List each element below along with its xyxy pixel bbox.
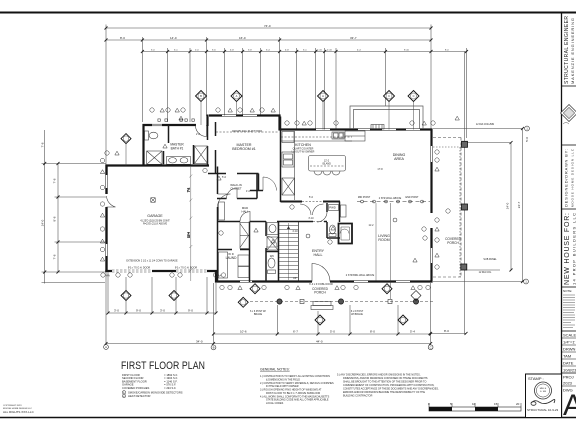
wall: stairs west — [278, 222, 280, 283]
left wall tag column — [100, 151, 225, 277]
kitchen hall opening dashed — [302, 201, 323, 203]
svg-text:10/8/23: 10/8/23 — [563, 368, 576, 373]
svg-text:HALL: HALL — [314, 253, 323, 257]
svg-text:17'-8: 17'-8 — [377, 168, 383, 171]
svg-text:UP: UP — [293, 276, 297, 280]
svg-text:14 PROP BUILDERS LLC: 14 PROP BUILDERS LLC — [572, 213, 576, 285]
svg-text:8'-0: 8'-0 — [444, 329, 449, 333]
svg-text:24'-0: 24'-0 — [506, 202, 510, 209]
bottom dim rows — [107, 271, 109, 313]
master bath door — [195, 125, 206, 137]
svg-text:3'-0: 3'-0 — [160, 309, 165, 313]
svg-text:9'-10: 9'-10 — [404, 50, 410, 52]
bath2 door — [266, 236, 277, 247]
east porch columns — [461, 141, 468, 270]
svg-text:21'-4: 21'-4 — [187, 232, 191, 238]
svg-text:PWD: PWD — [329, 206, 336, 210]
svg-text:DATE: DATE — [563, 361, 574, 366]
svg-text:MID POINT: MID POINT — [358, 196, 371, 199]
wall: bath south closets — [164, 145, 194, 164]
svg-text:STAMP :: STAMP : — [528, 376, 544, 381]
laundry machines — [238, 255, 249, 266]
svg-text:5'-0: 5'-0 — [222, 176, 227, 179]
svg-text:A: A — [563, 389, 576, 422]
wall: south exterior with door/windows — [215, 280, 433, 282]
svg-text:B: B — [213, 346, 215, 350]
island — [309, 156, 346, 172]
svg-text:CROWN RAIL PLAT/TYP(D): CROWN RAIL PLAT/TYP(D) — [232, 130, 262, 133]
svg-text:S. SM: S. SM — [540, 391, 546, 393]
left dim col — [44, 130, 46, 284]
wall: pwd west — [326, 203, 328, 238]
masonry pilaster on north wall — [371, 125, 384, 130]
svg-text:7'-8: 7'-8 — [53, 178, 57, 183]
svg-text:DESIGNED/DRAWN BY:: DESIGNED/DRAWN BY: — [564, 149, 569, 207]
svg-text:SUB PANEL: SUB PANEL — [483, 258, 497, 261]
keep cabinet — [341, 205, 347, 217]
fireplace — [339, 224, 353, 244]
svg-text:LAYOUT W/ OWNER: LAYOUT W/ OWNER — [292, 151, 315, 154]
entry hall arch — [313, 221, 324, 223]
stamp seal circle — [535, 382, 552, 399]
divider below logo — [562, 144, 576, 146]
svg-text:C: C — [413, 94, 415, 98]
area table — [122, 373, 178, 390]
wall: jog bath/bedroom — [206, 115, 208, 127]
svg-text:1'-10: 1'-10 — [317, 50, 323, 52]
dashed col lines at dining/living — [459, 147, 461, 277]
svg-text:MAKENZIE ENGINEERING: MAKENZIE ENGINEERING — [570, 18, 575, 84]
drawing title — [121, 360, 205, 398]
logo diamond — [561, 105, 576, 122]
linen closet — [195, 146, 208, 164]
svg-text:PORCH: PORCH — [314, 291, 326, 295]
window: bath north — [152, 124, 162, 126]
wall: bedroom west — [215, 122, 217, 174]
copyright note bottom-left — [3, 405, 35, 414]
wall: mud wing west jog — [215, 270, 217, 283]
wall: bedroom south / hall north — [208, 174, 259, 191]
svg-text:BEDROOM #1: BEDROOM #1 — [232, 147, 256, 151]
bath window tag boxes — [158, 119, 160, 121]
top dim row 2 — [106, 39, 431, 41]
grid bubbles — [104, 126, 530, 350]
title block left border — [561, 13, 563, 418]
wall: master bath west — [142, 124, 144, 167]
svg-text:BRACE: BRACE — [254, 313, 263, 316]
svg-text:= 294 S.F.: = 294 S.F. — [164, 386, 176, 390]
svg-text:KITCHEN: KITCHEN — [295, 143, 311, 147]
wall: kitchen/dining north with windows — [280, 128, 433, 130]
hall closets — [240, 223, 250, 249]
svg-text:34'-0: 34'-0 — [196, 340, 203, 344]
svg-text:24'-7: 24'-7 — [517, 201, 521, 208]
wall: mud hall south / bath north — [218, 221, 299, 223]
wall: bedroom south right + door — [250, 190, 263, 192]
wall: bedroom north with two windows — [209, 114, 281, 116]
svg-text:ALL RIGHTS XXX-LLC: ALL RIGHTS XXX-LLC — [3, 410, 35, 414]
master bath vanity — [167, 157, 191, 165]
svg-text:1/4"=1': 1/4"=1' — [563, 340, 576, 345]
svg-text:EXTENSION 2 1/2 x 11 1/4 CONN: EXTENSION 2 1/2 x 11 1/4 CONN TO GARAGE — [126, 260, 178, 263]
scale rows — [562, 330, 576, 332]
svg-text:5'-0: 5'-0 — [330, 330, 335, 334]
svg-text:C: C — [388, 94, 390, 98]
detector symbols — [151, 198, 397, 238]
svg-text:COPYRIGHT 2023: COPYRIGHT 2023 — [3, 405, 22, 407]
pwd sink — [329, 205, 339, 211]
living room center line — [390, 203, 392, 299]
fireplace firebox — [340, 227, 350, 240]
svg-text:9'0 x 7'0 O.H. DOOR: 9'0 x 7'0 O.H. DOOR — [128, 267, 150, 270]
svg-text:2 STR BRG WALL ABOVE: 2 STR BRG WALL ABOVE — [346, 274, 375, 277]
kitchen sink — [332, 132, 344, 139]
south porch columns — [277, 299, 419, 304]
master bath toilet — [145, 131, 149, 140]
dim ticks — [43, 27, 524, 346]
bedroom door — [263, 177, 277, 191]
bath2 shower — [267, 237, 278, 250]
svg-text:4'-6: 4'-6 — [246, 190, 251, 193]
svg-text:A: A — [322, 94, 324, 98]
divider below client — [562, 286, 576, 288]
svg-text:5'-0: 5'-0 — [309, 196, 314, 199]
wall: garage north — [106, 164, 210, 166]
dim labels — [114, 24, 529, 344]
laundry counter — [219, 252, 228, 278]
entry closet double doors — [300, 204, 324, 215]
right dim col — [433, 128, 523, 130]
svg-text:NOTE:: NOTE: — [563, 289, 572, 293]
butler area right of kitchen — [345, 131, 365, 141]
graphic scale bar — [428, 402, 521, 411]
wall: east exterior with windows — [430, 129, 432, 283]
svg-text:AA: AA — [106, 274, 110, 278]
wall: entry closet north — [299, 221, 328, 223]
svg-text:3'-0: 3'-0 — [114, 309, 119, 313]
svg-text:STRUCTURAL 10-9-23: STRUCTURAL 10-9-23 — [527, 408, 559, 412]
svg-text:12 DIA COL: 12 DIA COL — [479, 271, 492, 274]
title block divider below engineer section — [562, 85, 576, 87]
closet door — [227, 188, 238, 199]
svg-text:2023: 2023 — [563, 381, 573, 386]
svg-text:33'-7: 33'-7 — [350, 36, 357, 40]
svg-text:HEAT DETECTOR: HEAT DETECTOR — [128, 394, 150, 398]
stamp signature — [531, 399, 555, 403]
bath2 toilet — [268, 258, 275, 268]
detector legend — [122, 391, 125, 394]
svg-text:5'-0: 5'-0 — [525, 137, 529, 142]
divider below designer — [562, 208, 576, 210]
wall: bath north — [143, 124, 197, 126]
svg-text:9'0 x 7'0 O.H. DOOR: 9'0 x 7'0 O.H. DOOR — [175, 267, 197, 270]
svg-text:AA: AA — [218, 274, 222, 278]
svg-text:PORCH: PORCH — [447, 241, 459, 245]
wall: pwd south — [327, 237, 340, 239]
stamp box — [526, 374, 562, 418]
svg-text:MEL E: MEL E — [540, 388, 547, 390]
interior tag diamonds — [121, 134, 131, 144]
master bath shower — [147, 151, 162, 164]
pwd door — [317, 212, 327, 222]
svg-text:15: 15 — [494, 402, 498, 406]
south porch dashed edge — [240, 301, 433, 303]
svg-text:6'-0 x 6'-8 DBL DOOR: 6'-0 x 6'-8 DBL DOOR — [309, 283, 333, 286]
svg-text:9'-0: 9'-0 — [136, 309, 141, 313]
sheet top border — [0, 12, 576, 14]
pwd toilet — [330, 225, 336, 234]
stairs treads — [279, 223, 298, 280]
garage to mud door — [218, 194, 231, 207]
svg-text:24'-0: 24'-0 — [41, 219, 45, 226]
front door — [312, 264, 330, 282]
svg-text:12 DIA COLUMN: 12 DIA COLUMN — [476, 123, 494, 126]
wall: kitchen step — [278, 115, 280, 131]
svg-text:11'-2: 11'-2 — [368, 224, 374, 227]
living beam dashed — [357, 201, 430, 203]
svg-text:LOCAL CODES: LOCAL CODES — [266, 402, 284, 405]
svg-text:A: A — [105, 345, 107, 349]
wall: garage east / mud — [217, 167, 219, 283]
wall: toilet room east — [168, 125, 170, 143]
top extension verticals — [141, 37, 143, 122]
svg-text:AREA: AREA — [394, 157, 404, 161]
wall: bath2 west — [265, 222, 267, 283]
svg-text:74'-0: 74'-0 — [264, 24, 271, 28]
svg-text:HALL: HALL — [242, 210, 249, 214]
svg-text:BUILDING CONTRACTOR: BUILDING CONTRACTOR — [343, 394, 373, 397]
svg-text:8'-8: 8'-8 — [53, 216, 57, 221]
svg-text:SMOKE/CARBON MONOXIDE DETECTOR: SMOKE/CARBON MONOXIDE DETECTORS — [128, 391, 183, 395]
note 5 block — [337, 373, 439, 397]
svg-text:GARAGE: GARAGE — [147, 214, 163, 218]
top dim row 1 overall — [106, 27, 431, 29]
mud to hall door — [240, 212, 250, 222]
svg-text:8'-0: 8'-0 — [120, 36, 125, 40]
wall: bedroom/kitchen east — [280, 117, 282, 203]
sheet bottom border — [0, 417, 576, 419]
tag leader lines from diamonds to wall — [201, 102, 414, 130]
svg-text:8'-0: 8'-0 — [370, 330, 375, 334]
svg-text:WC: WC — [270, 254, 274, 258]
wall: bath east / hall — [207, 126, 209, 166]
east covered porch dashed edge — [433, 138, 465, 278]
top circle tag row — [150, 108, 435, 125]
svg-text:W/ BRACE: W/ BRACE — [351, 313, 363, 316]
svg-text:C: C — [430, 345, 432, 349]
south wall tag row — [220, 285, 430, 289]
svg-text:CLOSET: CLOSET — [230, 187, 241, 191]
wall: garage west with door + windows — [105, 165, 107, 273]
svg-text:4'-10: 4'-10 — [292, 230, 298, 233]
svg-text:MOOSE HOME DESIGN LLC: MOOSE HOME DESIGN LLC — [571, 148, 575, 207]
wall: walk-in closet — [217, 174, 257, 199]
bedroom crown dashed — [216, 131, 279, 133]
svg-text:GENERAL NOTES:: GENERAL NOTES: — [260, 368, 290, 372]
svg-text:9'-0: 9'-0 — [188, 309, 193, 313]
svg-text:ISLAND: ISLAND — [322, 163, 331, 166]
wall: laundry east / hall — [249, 222, 251, 283]
svg-text:R=23'D (2)1.8' ABOVE: R=23'D (2)1.8' ABOVE — [143, 223, 168, 226]
dining bay outline above kitchen wall — [350, 106, 423, 129]
svg-text:SCALE: SCALE — [563, 333, 576, 338]
svg-text:DRWN: DRWN — [563, 347, 575, 352]
svg-text:2 STR WALL ABOVE: 2 STR WALL ABOVE — [379, 197, 402, 200]
svg-text:COVERED PORCHES: COVERED PORCHES — [122, 386, 150, 390]
svg-text:ROOM: ROOM — [378, 238, 389, 242]
svg-text:NEW HOUSE FOR:: NEW HOUSE FOR: — [564, 213, 571, 285]
kitchen upper dash — [281, 136, 352, 138]
svg-text:B: B — [200, 94, 202, 98]
wall: garage south with 2 openings — [105, 270, 217, 272]
svg-text:7'-2: 7'-2 — [187, 187, 191, 192]
svg-text:14'-0: 14'-0 — [170, 36, 177, 40]
svg-text:PROJ: PROJ — [563, 375, 574, 380]
svg-text:10'-6: 10'-6 — [240, 330, 247, 334]
svg-text:16'-0: 16'-0 — [239, 36, 246, 40]
svg-text:END POINT: END POINT — [405, 196, 419, 199]
svg-text:44'-0: 44'-0 — [316, 340, 323, 344]
bath2 vanity — [267, 223, 278, 235]
mud bench — [219, 202, 225, 220]
top window diamonds — [196, 91, 420, 102]
front steps — [311, 302, 333, 310]
right wall tag column — [422, 150, 439, 269]
svg-text:7'-8: 7'-8 — [41, 142, 45, 147]
svg-text:6'-7: 6'-7 — [293, 330, 298, 334]
svg-text:2'-8: 2'-8 — [196, 133, 201, 136]
wall: kitchen south — [281, 201, 341, 203]
svg-text:TAM: TAM — [563, 354, 571, 359]
garage side door — [107, 196, 116, 207]
garage interior dim line — [189, 166, 192, 281]
general notes — [260, 368, 439, 406]
wall: bath2 mid — [266, 251, 278, 253]
wall: stairs east rail — [298, 222, 300, 283]
garage door dashed — [112, 270, 207, 272]
wall: pwd east — [339, 202, 341, 223]
svg-text:FIRST FLOOR PLAN: FIRST FLOOR PLAN — [121, 360, 205, 372]
interior triangles scatter — [163, 116, 450, 262]
wall: laundry north — [218, 249, 251, 251]
svg-text:2'-10: 2'-10 — [327, 50, 333, 52]
svg-text:BATH #1: BATH #1 — [171, 147, 184, 151]
svg-text:7'-8: 7'-8 — [53, 254, 57, 259]
svg-text:LAUND: LAUND — [226, 256, 238, 260]
top dim row 3 — [142, 51, 466, 53]
PLAN — [41, 24, 530, 350]
kitchen counters — [294, 131, 296, 200]
south diamonds — [121, 284, 421, 325]
svg-text:20: 20 — [516, 402, 520, 406]
svg-text:A: A — [236, 94, 238, 98]
svg-text:5'-4: 5'-4 — [410, 330, 415, 334]
svg-text:3'-10: 3'-10 — [308, 217, 314, 220]
